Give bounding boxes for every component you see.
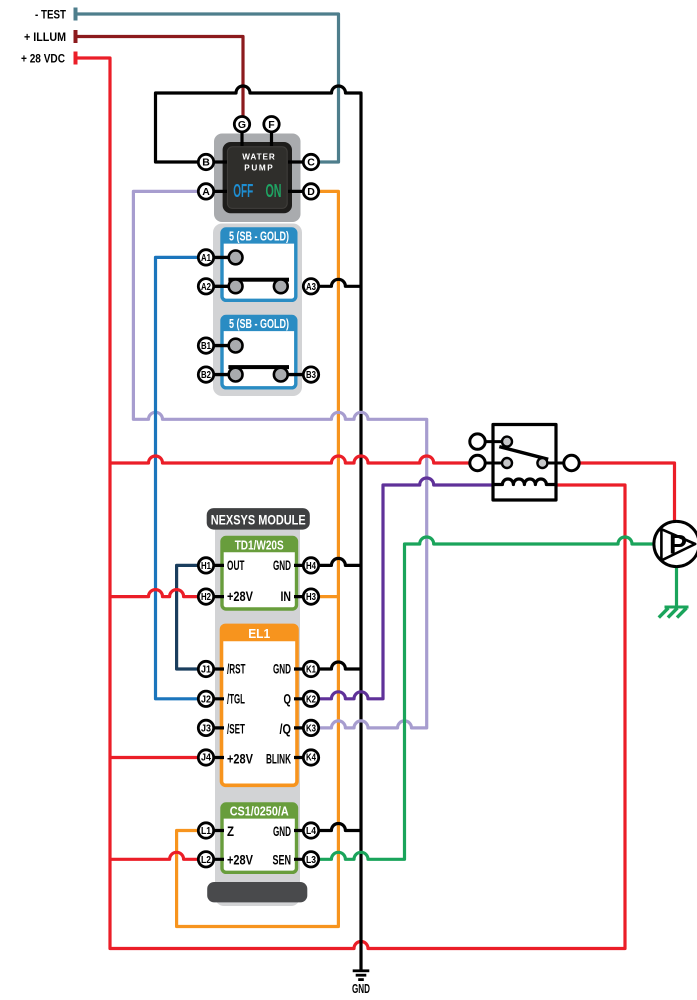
svg-text:L2: L2 [201, 854, 211, 866]
svg-text:J4: J4 [201, 751, 211, 763]
wire -TEST teal: label to switch pin C [77, 14, 339, 162]
wire black: EL1 pin K1 GND to ground bus [311, 662, 361, 669]
svg-text:/SET: /SET [227, 721, 245, 736]
pin H3 [303, 589, 318, 604]
wire +28VDC red bus: label down left side, bottom run, up to relay coil [77, 58, 625, 949]
relay K1 contact dot right [537, 458, 547, 468]
svg-text:J2: J2 [201, 693, 211, 705]
relay K1 terminal NO [564, 455, 579, 470]
wire black: TD1 pin H4 GND to ground bus [311, 558, 361, 565]
net label -TEST [35, 8, 78, 22]
pin J4 [198, 750, 213, 765]
svg-text:/TGL: /TGL [227, 692, 245, 707]
switch S1 WATER PUMP body [223, 142, 292, 213]
pin A1 [198, 250, 213, 265]
svg-text:+28V: +28V [227, 589, 253, 604]
svg-text:+28V: +28V [227, 751, 253, 766]
svg-text:Z: Z [227, 824, 234, 839]
pin L4 [303, 823, 318, 838]
svg-text:J1: J1 [201, 664, 211, 676]
circuit breaker CB-A 5 (SB - GOLD) [206, 229, 296, 300]
module U1 TD1/W20S [222, 538, 297, 610]
svg-text:+28V: +28V [227, 852, 253, 867]
pin J3 [198, 720, 213, 735]
svg-text:GND: GND [273, 824, 291, 839]
wire stub switch body to pin C [288, 160, 311, 163]
wire stub pin A2 to contact [206, 285, 236, 288]
net label +28VDC [21, 52, 78, 66]
svg-text:5 (SB - GOLD): 5 (SB - GOLD) [229, 230, 289, 244]
pump motor M1 [654, 521, 697, 566]
wire blue: breaker pin A1 to EL1 pin J2 /TGL [156, 257, 207, 698]
svg-text:L1: L1 [201, 825, 211, 837]
relay K1 terminal NC [470, 434, 485, 449]
svg-text:G: G [238, 119, 246, 131]
net label +ILLUM [24, 30, 78, 44]
wire lavender: switch pin A to EL1 pin K3 /Q [133, 191, 426, 728]
relay K1 armature stub NO [542, 462, 571, 465]
svg-text:+ ILLUM: + ILLUM [24, 30, 66, 44]
pin L1 [198, 823, 213, 838]
relay K1 armature [499, 447, 548, 460]
pin J2 [198, 691, 213, 706]
svg-text:A3: A3 [306, 281, 316, 293]
wire navy: TD1 pin H1 OUT to EL1 pin J1 /RST [177, 565, 206, 669]
relay K1 armature stub NC [478, 440, 508, 443]
breaker CB-B contact B3 [274, 368, 288, 382]
pin H4 [303, 558, 318, 573]
pin K3 [303, 720, 318, 735]
svg-text:H4: H4 [306, 560, 316, 572]
svg-text:B3: B3 [306, 369, 316, 381]
wire stub pin B to switch body [206, 160, 227, 163]
pin L2 [198, 852, 213, 867]
svg-text:PUMP: PUMP [244, 164, 273, 173]
svg-text:P: P [669, 530, 687, 560]
wire red: relay NO terminal to pump motor [572, 463, 675, 523]
pin C [303, 154, 318, 169]
wire +ILLUM dark red: label to switch pin G [77, 37, 243, 125]
wire stub pin A1 to contact [206, 256, 236, 259]
svg-text:SEN: SEN [273, 852, 292, 867]
svg-text:ON: ON [266, 181, 282, 201]
wire red: +28V bus to EL1 pin J4 [110, 756, 206, 759]
svg-text:GND: GND [352, 981, 370, 996]
NEXSYS MODULE mounting plate [215, 520, 300, 906]
wire stub switch body to pin D [288, 190, 311, 193]
pin J1 [198, 661, 213, 676]
wire green: pump motor to chassis ground [675, 566, 678, 607]
relay K1 armature stub common [478, 462, 508, 465]
wire stub pin A to switch body [206, 190, 227, 193]
wire stub pin F to switch body [270, 124, 273, 146]
svg-text:L4: L4 [306, 825, 316, 837]
svg-text:H1: H1 [201, 560, 211, 572]
pin A [198, 184, 213, 199]
svg-text:L3: L3 [306, 854, 316, 866]
svg-text:/Q: /Q [280, 721, 292, 736]
pin B1 [198, 338, 213, 353]
circuit breaker mounting plate [213, 224, 302, 397]
svg-text:- TEST: - TEST [35, 8, 67, 22]
svg-text:K4: K4 [306, 751, 316, 763]
pin K2 [303, 691, 318, 706]
pin H2 [198, 589, 213, 604]
pin K1 [303, 661, 318, 676]
breaker CB-B contact B2 [229, 368, 243, 382]
svg-text:K3: K3 [306, 723, 316, 735]
switch S1 WATER PUMP mounting plate [214, 134, 301, 223]
relay K1 body [493, 425, 556, 501]
pin K4 [303, 750, 318, 765]
svg-text:TD1/W20S: TD1/W20S [235, 538, 284, 552]
svg-text:Q: Q [284, 692, 292, 707]
wire black: breaker pin A3 to ground bus [281, 279, 361, 286]
wire red: +28V bus to CS1 pin L2 [110, 852, 206, 859]
ground symbol GND [352, 969, 370, 996]
wire orange: TD1 pin H3 to orange vertical [311, 595, 338, 598]
svg-text:EL1: EL1 [248, 627, 270, 641]
wire orange: switch pin D down, bottom loop, up to CS1 pin L1 [177, 191, 339, 926]
pin D [303, 184, 318, 199]
wire stubs module pins to boxes [206, 565, 311, 859]
label NEXSYS MODULE [207, 508, 310, 529]
wire stub pin G to switch body [240, 124, 243, 146]
svg-text:+ 28 VDC: + 28 VDC [21, 52, 65, 66]
relay K1 coil [493, 479, 556, 485]
circuit breaker CB-B 5 (SB - GOLD) [206, 317, 311, 388]
wire red: +28V bus to relay common terminal [110, 456, 478, 463]
chassis ground for pump [659, 607, 689, 618]
svg-text:GND: GND [273, 558, 291, 573]
pin B2 [198, 367, 213, 382]
svg-text:A2: A2 [201, 281, 211, 293]
breaker CB-A contact A3 [274, 279, 288, 293]
wire green: CS1 pin L3 SEN to pump motor [311, 537, 655, 859]
svg-text:J3: J3 [201, 723, 211, 735]
svg-text:D: D [307, 186, 315, 198]
svg-text:F: F [268, 119, 275, 131]
pin B3 [303, 367, 318, 382]
breaker CB-A contact A2 [229, 279, 243, 293]
relay K1 contact dot middle [502, 458, 512, 468]
relay K1 terminal common [470, 455, 485, 470]
svg-text:A: A [202, 186, 210, 198]
module U2 EL1 [222, 625, 298, 785]
breaker CB-A contact A1 [229, 251, 243, 265]
svg-text:/RST: /RST [227, 662, 246, 677]
svg-text:C: C [307, 157, 315, 169]
relay K1 contact dot top [502, 437, 512, 447]
svg-text:5 (SB - GOLD): 5 (SB - GOLD) [229, 317, 289, 331]
wire stub contact to pin B3 [281, 373, 311, 376]
svg-text:OFF: OFF [233, 181, 253, 201]
svg-text:B1: B1 [201, 340, 211, 352]
pin F [264, 117, 279, 132]
pin B [198, 154, 213, 169]
svg-text:A1: A1 [201, 252, 211, 264]
svg-text:GND: GND [273, 662, 291, 677]
svg-text:IN: IN [281, 589, 292, 604]
svg-text:H2: H2 [201, 591, 211, 603]
svg-text:NEXSYS MODULE: NEXSYS MODULE [211, 511, 306, 527]
NEXSYS MODULE connector base [207, 882, 307, 902]
svg-text:CS1/0250/A: CS1/0250/A [230, 805, 289, 819]
pin A2 [198, 279, 213, 294]
pin L3 [303, 852, 318, 867]
wire purple: EL1 pin K2 Q to relay coil [311, 478, 498, 699]
wire stub pin B2 to contact [206, 373, 236, 376]
wire red: +28V bus to TD1 pin H2 [110, 590, 206, 597]
pin A3 [303, 279, 318, 294]
module U3 CS1/0250/A [222, 804, 297, 872]
pin H1 [198, 558, 213, 573]
svg-text:K1: K1 [306, 664, 316, 676]
svg-text:OUT: OUT [227, 558, 245, 573]
wire black: switch pin B loop over top into main ground bus [156, 86, 362, 970]
svg-text:BLINK: BLINK [266, 751, 291, 766]
wire black: CS1 pin L4 GND to ground bus [311, 824, 361, 831]
svg-text:B2: B2 [201, 369, 211, 381]
svg-text:H3: H3 [306, 591, 316, 603]
breaker CB-B contact bar [228, 365, 289, 369]
breaker CB-A contact bar [228, 278, 289, 282]
breaker CB-B contact B1 [229, 339, 243, 353]
svg-text:B: B [202, 157, 210, 169]
svg-text:WATER: WATER [242, 153, 275, 162]
svg-text:K2: K2 [306, 693, 316, 705]
wire stub pin B1 to contact [206, 344, 236, 347]
pin G [234, 117, 249, 132]
